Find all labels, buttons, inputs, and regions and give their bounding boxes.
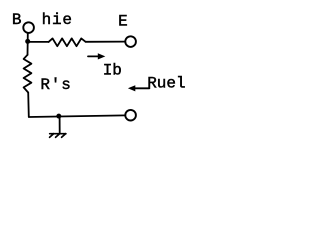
svg-text:hie: hie	[42, 11, 73, 29]
resistor hie	[49, 38, 86, 46]
resistor R's	[24, 55, 32, 93]
svg-text:R's: R's	[40, 76, 71, 94]
node B junction dot	[25, 39, 30, 44]
terminal B	[23, 22, 34, 33]
wire ground stub	[59, 117, 61, 134]
terminal bottom right	[125, 110, 136, 121]
ground	[50, 134, 66, 138]
svg-text:Ib: Ib	[103, 62, 122, 80]
wire resistor hie to terminal E	[86, 41, 125, 43]
junction dot ground node	[56, 114, 61, 119]
bottom wire	[29, 115, 125, 117]
wire B terminal to node	[27, 33, 29, 40]
svg-text:E: E	[118, 12, 128, 30]
wire node B to resistor hie	[28, 41, 49, 43]
current arrow Ruel	[128, 85, 149, 91]
current arrow Ib	[88, 53, 105, 59]
terminal E	[125, 36, 136, 47]
svg-text:B: B	[12, 11, 22, 29]
svg-text:Ruel: Ruel	[147, 75, 185, 93]
wire resistor R's to bottom wire	[27, 93, 30, 117]
wire node B to resistor R's	[27, 41, 29, 54]
